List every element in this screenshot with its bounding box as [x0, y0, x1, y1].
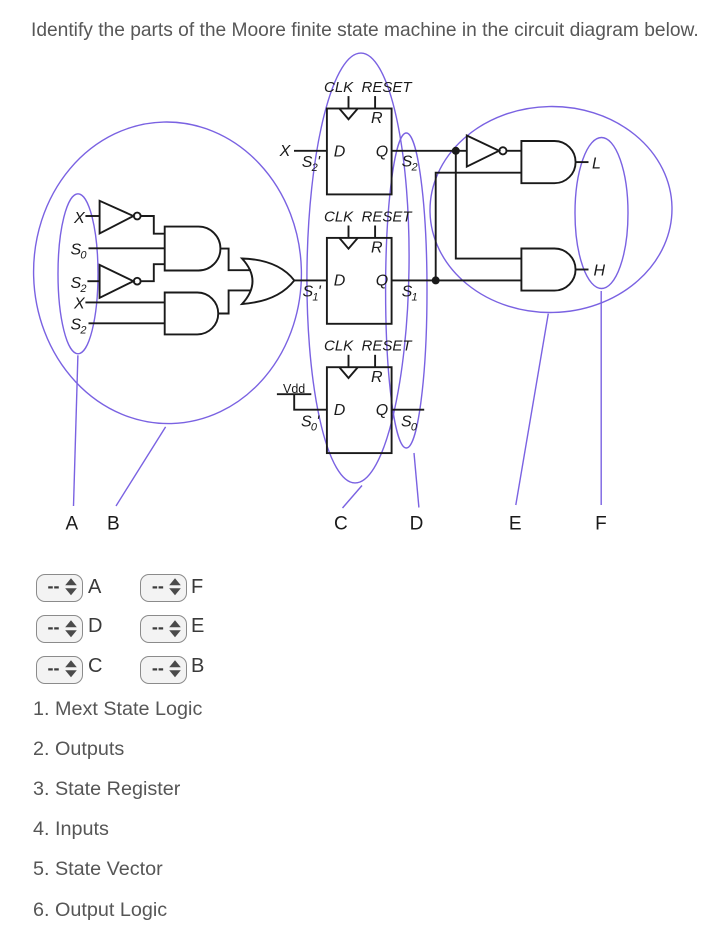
- svg-text:D: D: [410, 514, 424, 535]
- svg-text:E: E: [509, 514, 522, 535]
- svg-text:Vdd: Vdd: [283, 382, 305, 396]
- svg-text:': ': [317, 154, 321, 171]
- svg-text:1: 1: [412, 292, 418, 304]
- svg-text:2: 2: [79, 283, 86, 295]
- svg-text:X: X: [73, 295, 86, 312]
- svg-text:0: 0: [80, 250, 87, 262]
- svg-text:F: F: [595, 514, 607, 535]
- svg-text:2: 2: [411, 162, 418, 174]
- svg-text:X: X: [73, 210, 86, 227]
- svg-text:': ': [318, 284, 322, 301]
- svg-text:A: A: [66, 514, 79, 535]
- svg-text:X: X: [279, 143, 292, 160]
- svg-text:B: B: [107, 514, 120, 535]
- svg-text:2: 2: [79, 325, 86, 337]
- svg-text:L: L: [592, 156, 601, 173]
- svg-text:H: H: [594, 262, 606, 279]
- svg-text:0: 0: [411, 422, 418, 434]
- svg-text:C: C: [334, 514, 348, 535]
